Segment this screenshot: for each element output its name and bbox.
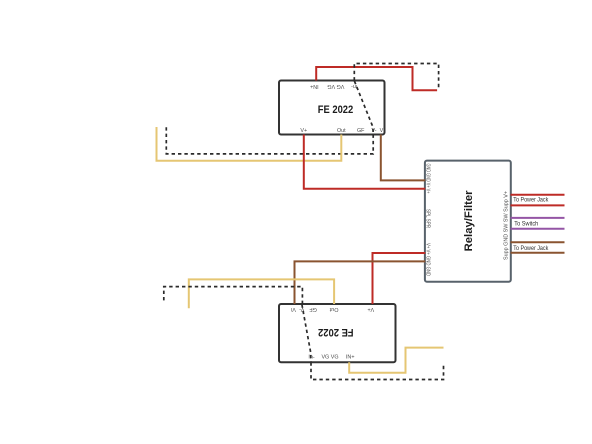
pin U1 V+ — [300, 128, 307, 134]
pin U2 VG VG (bottom) — [321, 355, 338, 361]
wire red U3 Supp V+ a to power jack — [511, 194, 565, 196]
svg-text:IN+: IN+ — [346, 355, 355, 361]
wire purple U3 SW a to switch — [511, 217, 565, 219]
pin U3 SPL SPR (left middle, rotated) — [425, 209, 431, 228]
svg-text:V+: V+ — [367, 306, 374, 312]
label To Power Jack (top) — [513, 197, 549, 204]
wire dashed U2 V- to bottom-left stub — [164, 287, 303, 304]
wire yellow U1 Out to left stub — [157, 127, 342, 161]
pin U1 Vi — [380, 128, 385, 134]
wire brown U3 Supp GND b to power jack — [511, 252, 565, 254]
wire red U3 Supp V+ b to power jack — [511, 204, 565, 206]
label To Switch — [514, 220, 538, 227]
wire dashed U1 V- to left stub — [166, 125, 373, 154]
svg-text:IN+: IN+ — [310, 83, 319, 89]
svg-text:FE 2022: FE 2022 — [318, 104, 354, 116]
label To Power Jack (bottom) — [513, 245, 549, 252]
pin U2 Vi (top, rotated) — [291, 306, 296, 312]
wire dashed diagonal inside U1 (In- to V-) — [354, 81, 373, 135]
label U2 value FE 2022 (rotated) — [318, 326, 354, 338]
wire dashed U2 In- to bottom-right stub — [311, 362, 444, 379]
svg-text:VG VG: VG VG — [321, 355, 338, 361]
svg-text:V+: V+ — [300, 128, 307, 134]
wire dashed diagonal inside U2 (V- to In-) — [302, 305, 311, 363]
wire dashed U1 In- to top-right stub — [354, 64, 438, 90]
svg-text:To Power Jack: To Power Jack — [513, 197, 549, 204]
module U2 FE 2022 (bottom amplifier module, rotated 180) — [279, 304, 396, 362]
wire brown U2 Vi to U3 — [295, 261, 426, 304]
svg-text:Out: Out — [337, 128, 346, 134]
module U3 Relay/Filter — [425, 161, 511, 282]
svg-text:Vi: Vi — [291, 306, 296, 312]
label U3 value Relay/Filter (rotated) — [463, 190, 475, 252]
svg-text:Vi: Vi — [380, 128, 385, 134]
pin U1 IN+ (top, rotated) — [310, 83, 319, 89]
svg-text:Relay/Filter: Relay/Filter — [463, 190, 475, 252]
module U1 FE 2022 (top amplifier module) — [279, 81, 385, 135]
wire yellow U2 IN+ to bottom-right stub — [349, 348, 443, 373]
svg-text:SPL SPR: SPL SPR — [425, 209, 431, 228]
svg-text:To Power Jack: To Power Jack — [513, 245, 549, 252]
pin U2 V+ (top, rotated) — [367, 306, 374, 312]
pin U2 In- (bottom) — [308, 355, 314, 361]
pin U1 VG VG (top, rotated) — [327, 83, 344, 89]
svg-text:V+ V+ GND GND: V+ V+ GND GND — [425, 243, 431, 276]
wire yellow U2 Out to bottom-left stub — [189, 279, 334, 308]
svg-text:To Switch: To Switch — [514, 220, 538, 227]
pin U3 GND GND V+ V+ (left top, rotated) — [425, 164, 431, 194]
pin U1 V- — [371, 128, 376, 134]
pin U1 In- (top, rotated) — [351, 83, 357, 89]
label U1 value FE 2022 — [318, 104, 354, 116]
wire red U2 V+ to U3 — [373, 253, 426, 304]
pin U2 IN+ (bottom) — [346, 355, 355, 361]
svg-text:FE 2022: FE 2022 — [318, 326, 354, 338]
wire red U1 V+ to U3 — [304, 135, 426, 189]
pin U2 V- (top, rotated) — [299, 306, 304, 312]
pin U2 GF (top, rotated) — [309, 306, 317, 312]
pin U2 Out (top, rotated) — [329, 306, 338, 312]
pin U3 Supp GND SW SW Supp V+ (right, rotated) — [503, 191, 509, 260]
pin U1 GF — [357, 128, 365, 134]
pin U1 Out — [337, 128, 346, 134]
svg-text:Out: Out — [329, 306, 338, 312]
svg-text:GND GND V+ V+: GND GND V+ V+ — [425, 164, 431, 194]
wire brown U3 Supp GND a to power jack — [511, 241, 565, 243]
wire purple U3 SW b to switch — [511, 228, 565, 230]
wire red U1 IN+ to top-right stub — [316, 67, 437, 90]
svg-text:GF: GF — [309, 306, 317, 312]
svg-text:Supp GND SW SW Supp V+: Supp GND SW SW Supp V+ — [503, 191, 509, 260]
svg-text:GF: GF — [357, 128, 365, 134]
pin U3 V+ V+ GND GND (left bottom, rotated) — [425, 243, 431, 276]
svg-text:VG VG: VG VG — [327, 83, 344, 89]
wire brown U1 Vi to U3 — [381, 135, 426, 181]
